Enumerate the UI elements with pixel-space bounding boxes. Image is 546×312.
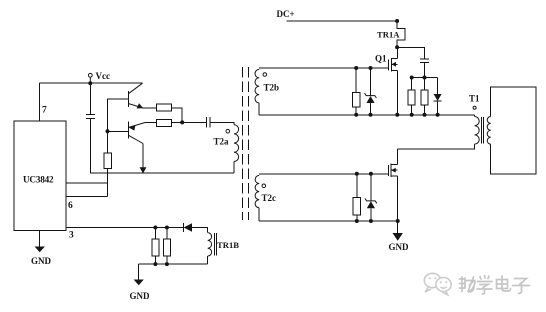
junction rail b [369, 113, 373, 117]
wire R4 top [154, 228, 156, 239]
wire Z2 top [370, 174, 372, 201]
wire T1 primary top [474, 115, 476, 117]
resistor R5 [163, 239, 170, 256]
wire pin6 line [66, 195, 108, 197]
junction snubber R6 [410, 76, 414, 80]
node T2c phase dot [262, 184, 266, 188]
junction Vcc rail [88, 81, 92, 85]
wire Q4 emitter to R2 [146, 121, 157, 123]
T1 core bars [480, 117, 482, 144]
svg-text:GND: GND [389, 242, 410, 252]
wire D2 bottom [437, 101, 439, 115]
wire Q1 drain [396, 47, 398, 58]
watermark logo [424, 273, 451, 295]
junction driver output [180, 120, 184, 124]
junction snubber C3 [423, 76, 427, 80]
wire pin8 line [66, 182, 108, 184]
svg-text:T2b: T2b [264, 83, 280, 93]
wire T2b top gate line [259, 67, 389, 69]
node T2a phase dot [226, 129, 230, 133]
ground left bottom [130, 264, 151, 301]
resistor R8 [353, 92, 360, 107]
capacitor C1 [86, 114, 95, 116]
wire R3 bottom [107, 169, 109, 197]
wire T2a bottom [233, 162, 235, 174]
junction T2c top a [355, 172, 359, 176]
junction TR1A bottom [395, 45, 399, 49]
wire R9 top [356, 174, 358, 198]
resistor R3 vertical [104, 153, 112, 169]
wire R4 bottom [154, 256, 156, 264]
svg-text:Vcc: Vcc [96, 71, 111, 81]
capacitor C2 coupling [205, 117, 207, 128]
junction T2c top b [369, 172, 373, 176]
TR1B core bars [214, 233, 216, 256]
wire R8 bottom [355, 107, 357, 115]
wire snubber mid rail [412, 77, 438, 79]
junction T2c bottom b [369, 219, 373, 223]
ground under Q2 [389, 221, 410, 252]
wire pin3 line [66, 227, 183, 229]
resistor R2 horizontal [156, 119, 171, 126]
diode D1 on pin3 line [183, 223, 192, 232]
junction gate line a [354, 66, 358, 70]
wire snubber top [397, 47, 424, 59]
wire C2 to T2a [210, 122, 234, 124]
wire C3 bottom [424, 62, 426, 77]
wire to coupling capacitor [182, 121, 206, 123]
wire TR1B bottom [207, 256, 209, 264]
wire pin7 vertical [38, 83, 40, 121]
wire R5 bottom [166, 256, 168, 264]
wire bottom return [139, 263, 208, 265]
junction rail c [395, 113, 399, 117]
transformer T2 core dashed lines [242, 67, 244, 220]
wire Vcc branch lower to return line [90, 119, 234, 174]
transformer winding TR1A jumper [397, 21, 405, 47]
wire R5 top [166, 228, 168, 239]
wire R7 bottom [424, 105, 426, 115]
capacitor C3 [420, 58, 429, 60]
svg-text:UC3842: UC3842 [23, 175, 54, 185]
junction rail e [423, 113, 427, 117]
wire Vcc rail [39, 82, 142, 84]
wire main rail [259, 114, 474, 116]
junction base node [106, 129, 110, 133]
node T2b phase dot [263, 73, 267, 77]
junction rail f [436, 113, 440, 117]
junction gate line b [369, 66, 373, 70]
wire Q3 base lead [108, 99, 129, 132]
wire T1 primary bottom [398, 144, 475, 149]
wire R7 top [424, 78, 426, 91]
wire Q2 source [397, 176, 399, 221]
junction pin3 R5 [165, 226, 169, 230]
svg-text:7: 7 [42, 106, 47, 116]
junction T2c bottom a [355, 219, 359, 223]
wire T2c top gate line [259, 173, 388, 175]
wire Q3 emitter to R1 [143, 107, 156, 109]
svg-text:TR1B: TR1B [217, 240, 239, 250]
wire Z1 top [370, 68, 372, 96]
transformer winding T2b [255, 69, 259, 103]
resistor R4 [152, 239, 159, 256]
resistor R7 [421, 90, 428, 105]
junction rail a [354, 113, 358, 117]
watermark text drawn as strokes [460, 276, 530, 295]
diode D2 [434, 94, 442, 101]
wire Vcc branch upper [89, 83, 91, 114]
junction R4 bottom [153, 262, 157, 266]
node Vcc terminal [88, 73, 92, 77]
junction pin3 R4 [153, 226, 157, 230]
wire Z2 bottom [370, 208, 372, 221]
wire Q4 base lead [108, 130, 129, 132]
wire R9 bottom [356, 215, 358, 221]
node T1 phase dot [473, 106, 476, 109]
op-amp U1 UC3842 box [14, 121, 66, 231]
wire DC+ line [286, 20, 397, 22]
wire D2 top [437, 78, 439, 95]
svg-text:GND: GND [130, 291, 151, 301]
svg-text:T1: T1 [469, 94, 480, 104]
svg-text:DC+: DC+ [277, 9, 295, 19]
junction R5 bottom [165, 262, 169, 266]
ground under UC3842 [31, 231, 52, 267]
svg-text:T2c: T2c [262, 193, 277, 203]
svg-text:3: 3 [69, 231, 74, 241]
wire Q2 drain [397, 149, 399, 165]
svg-text:T2a: T2a [214, 137, 230, 147]
transformer T1 primary winding [475, 117, 480, 145]
junction rail d [410, 113, 414, 117]
wire T2c bottom lead [258, 208, 260, 221]
wire secondary top [491, 87, 536, 174]
resistor R1 horizontal [156, 104, 171, 111]
wire T2c bottom line [259, 220, 398, 222]
svg-text:6: 6 [68, 201, 73, 211]
svg-text:TR1A: TR1A [377, 30, 400, 40]
wire Q1 source [396, 70, 398, 115]
wire R2 right to junction [172, 121, 183, 123]
wire T2b bottom [258, 103, 260, 115]
zener Z2 [365, 199, 377, 209]
transformer T1 secondary winding [487, 117, 490, 145]
transistor Q4 PNP bottom driver [128, 121, 145, 143]
junction DC+ end [395, 19, 399, 23]
transistor Q3 NPN top driver [128, 83, 143, 108]
transistor Q2 MOSFET [389, 164, 398, 178]
wire R6 top [411, 78, 413, 91]
transistor Q1 MOSFET [389, 58, 398, 72]
svg-text:GND: GND [31, 256, 52, 266]
zener Z1 [365, 93, 377, 103]
svg-text:Q1: Q1 [375, 54, 387, 64]
wire base node to R3 [107, 131, 109, 153]
wire R8 top [355, 68, 357, 92]
junction Q2 source bottom [396, 219, 400, 223]
transformer winding T2c [255, 175, 259, 207]
arrow collector into return line [140, 167, 147, 173]
transformer winding TR1B [208, 233, 212, 256]
wire R6 bottom [411, 105, 413, 115]
transformer winding T2a [234, 125, 239, 162]
wire Q4 collector down [142, 144, 144, 172]
wire R1 right [172, 108, 183, 122]
wire Z1 bottom [370, 103, 372, 115]
resistor R6 [408, 90, 415, 105]
resistor R9 [353, 198, 360, 216]
wire D1 to TR1B [192, 228, 208, 233]
